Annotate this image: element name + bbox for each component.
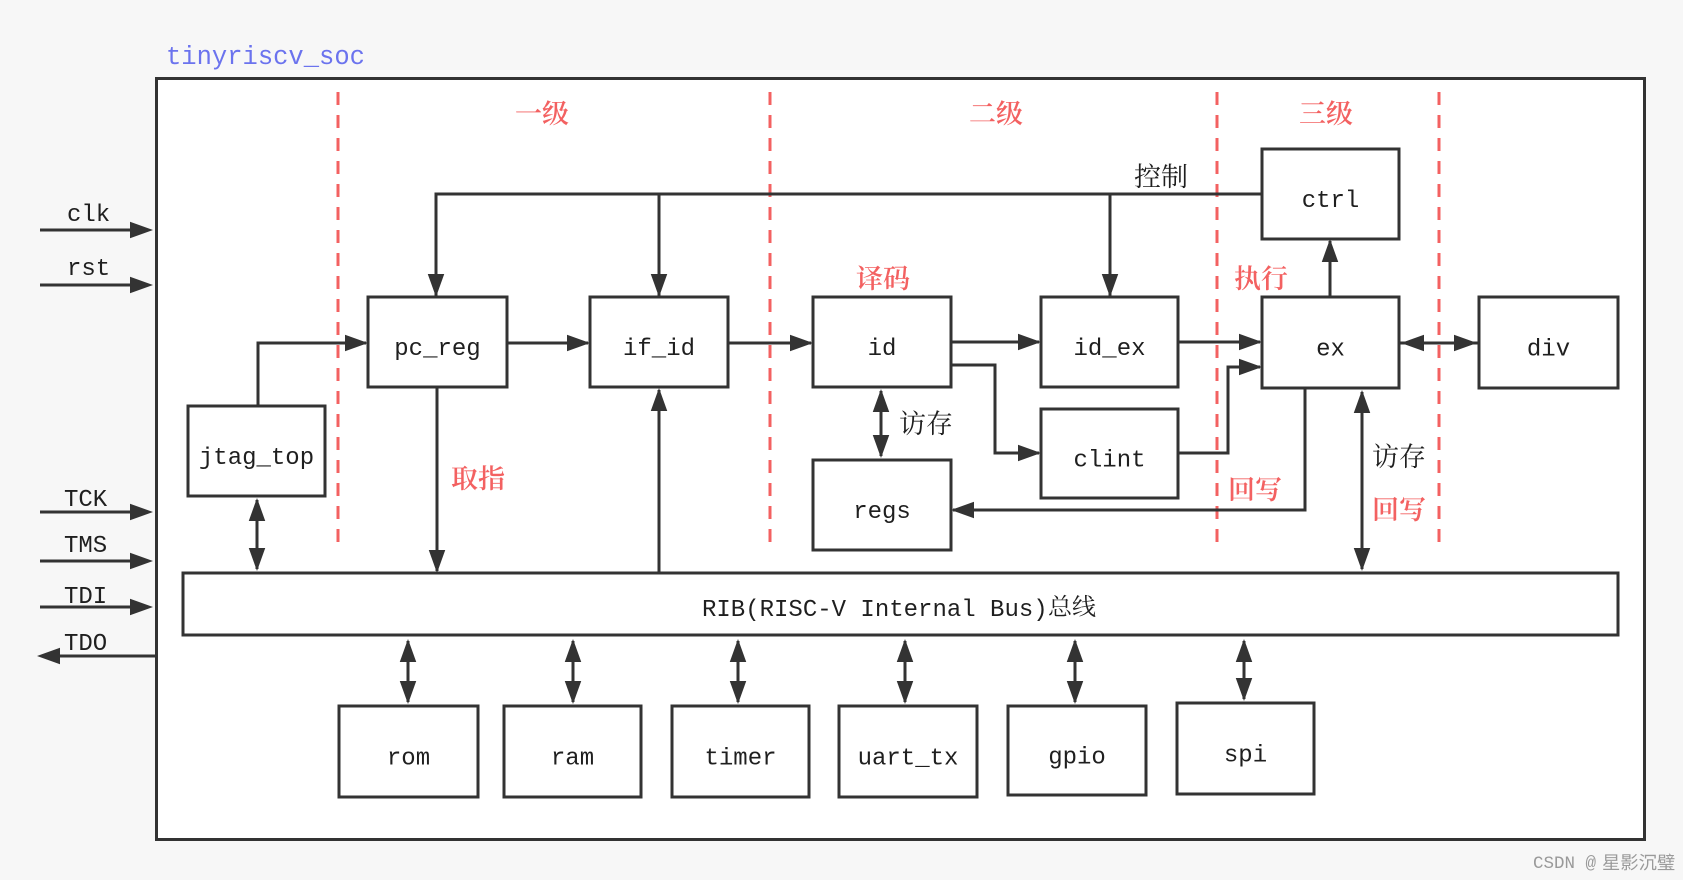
- svg-text:rom: rom: [387, 746, 430, 773]
- wire clint to ex: [1178, 359, 1262, 453]
- svg-text:clint: clint: [1073, 448, 1145, 475]
- svg-text:regs: regs: [853, 499, 911, 526]
- double arrow bus to timer: [730, 639, 747, 704]
- block id_ex: [1041, 297, 1178, 387]
- block timer: [672, 706, 809, 797]
- svg-text:TMS: TMS: [64, 533, 107, 560]
- svg-text:id: id: [868, 336, 897, 363]
- svg-text:uart_tx: uart_tx: [858, 746, 959, 773]
- wire control bus from ctrl to pc_reg/if_id/id_ex: [436, 194, 1262, 297]
- stage separator dashed line 3: [1216, 92, 1219, 548]
- label stage-3 三级: [1300, 100, 1353, 125]
- double arrow ex to RIB bus: [1354, 390, 1371, 571]
- label 回写 near clint: [1231, 477, 1281, 501]
- input clk: [40, 202, 153, 238]
- block spi: [1177, 703, 1314, 794]
- wire ex to ctrl: [1322, 239, 1339, 297]
- svg-text:pc_reg: pc_reg: [394, 336, 480, 363]
- label 取指 fetch: [452, 465, 504, 490]
- input TDI: [40, 584, 153, 615]
- label stage-2 二级: [970, 100, 1022, 125]
- input TCK: [40, 487, 153, 520]
- svg-text:id_ex: id_ex: [1073, 336, 1145, 363]
- wire ex to regs writeback: [951, 388, 1305, 518]
- block ex: [1262, 297, 1399, 388]
- double arrow bus to ram: [565, 639, 582, 704]
- wire id to clint: [951, 365, 1041, 461]
- double arrow bus to rom: [400, 639, 417, 704]
- wire jtag_top to pc_reg: [258, 335, 368, 406]
- double arrow bus to spi: [1236, 639, 1253, 701]
- svg-text:ram: ram: [551, 746, 594, 773]
- wire id to id_ex: [951, 334, 1041, 351]
- svg-text:spi: spi: [1224, 743, 1267, 770]
- SoC boundary box tinyriscv_soc: [157, 79, 1645, 840]
- double arrow jtag_top to RIB bus: [249, 498, 266, 571]
- label 访存 near ex-bus: [1373, 443, 1424, 468]
- label 回写 near ex-bus: [1375, 497, 1425, 521]
- block rom: [339, 706, 478, 797]
- svg-text:div: div: [1527, 337, 1570, 364]
- block regs: [813, 460, 951, 550]
- RIB internal bus bar: [183, 573, 1618, 635]
- label stage-1 一级: [516, 100, 568, 125]
- stage separator dashed line 4: [1438, 92, 1441, 548]
- label 总线 bus: [1049, 595, 1095, 617]
- svg-text:RIB(RISC-V Internal Bus): RIB(RISC-V Internal Bus): [702, 597, 1048, 624]
- wire RIB bus up to if_id: [651, 388, 668, 573]
- block clint: [1041, 409, 1178, 498]
- block jtag_top: [188, 406, 325, 496]
- block ctrl: [1262, 149, 1399, 239]
- wire id_ex to ex: [1178, 334, 1262, 351]
- arrow into if_id top: [651, 274, 668, 297]
- wire pc_reg to if_id: [507, 335, 590, 352]
- block uart_tx: [839, 706, 977, 797]
- label 译码 decode: [857, 265, 910, 290]
- svg-text:rst: rst: [67, 256, 110, 283]
- stage separator dashed line 2: [769, 92, 772, 548]
- block ram: [504, 706, 641, 797]
- arrow into id_ex top: [1102, 274, 1119, 297]
- block div: [1479, 297, 1618, 388]
- svg-text:ex: ex: [1316, 337, 1345, 364]
- svg-text:gpio: gpio: [1048, 745, 1106, 772]
- arrow into pc_reg top: [428, 274, 445, 297]
- svg-text:TDO: TDO: [64, 631, 107, 658]
- svg-text:if_id: if_id: [623, 336, 695, 363]
- wire pc_reg down to RIB bus fetch: [429, 387, 446, 573]
- wire ex to div double arrow: [1399, 335, 1479, 352]
- block id: [813, 297, 951, 387]
- input rst: [40, 256, 153, 293]
- label 执行 execute: [1235, 265, 1287, 290]
- block gpio: [1008, 706, 1146, 795]
- label 控制 control: [1135, 163, 1187, 188]
- double arrow id to regs: [873, 389, 890, 458]
- svg-text:jtag_top: jtag_top: [199, 445, 314, 472]
- svg-text:timer: timer: [704, 746, 776, 773]
- label 访存 near id-regs: [900, 410, 951, 435]
- svg-text:clk: clk: [67, 202, 110, 229]
- double arrow bus to gpio: [1067, 639, 1084, 704]
- double arrow bus to uart_tx: [897, 639, 914, 704]
- svg-text:CSDN @: CSDN @: [1533, 854, 1597, 874]
- output TDO: [37, 631, 155, 664]
- wire if_id to id: [728, 335, 813, 352]
- svg-text:TCK: TCK: [64, 487, 108, 514]
- block pc_reg: [368, 297, 507, 387]
- input TMS: [40, 533, 153, 569]
- stage separator dashed line 1: [337, 92, 340, 546]
- block if_id: [590, 297, 728, 387]
- svg-text:ctrl: ctrl: [1302, 188, 1360, 215]
- svg-text:tinyriscv_soc: tinyriscv_soc: [166, 43, 365, 72]
